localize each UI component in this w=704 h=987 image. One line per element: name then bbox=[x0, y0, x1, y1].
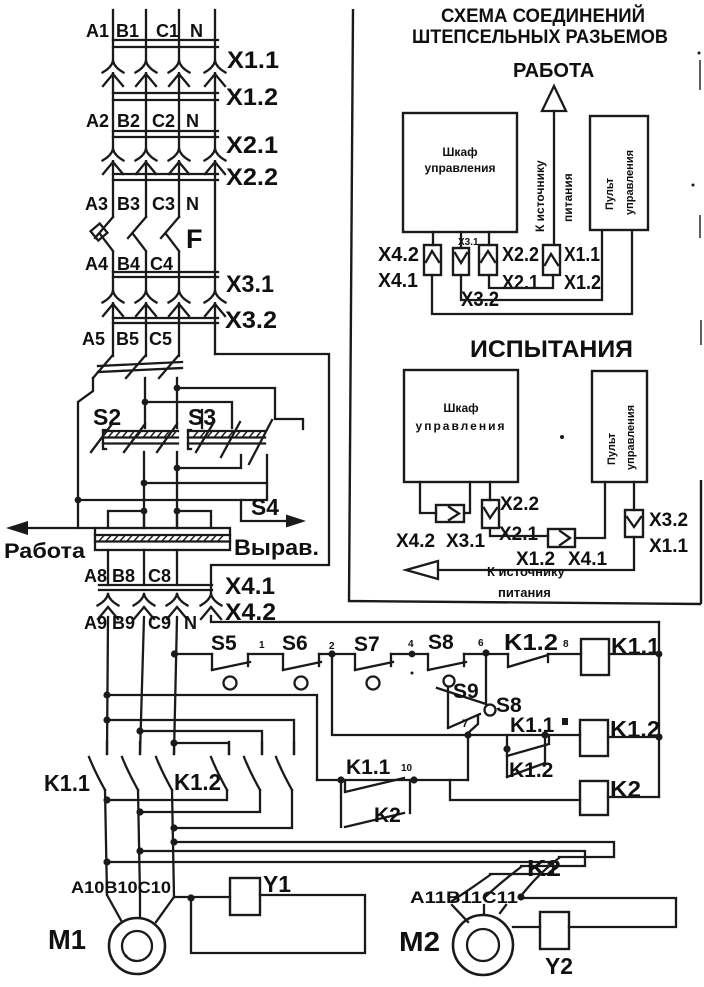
wire phase C column lower bbox=[174, 617, 177, 754]
wire X2.1 to X1.2 bbox=[490, 528, 548, 536]
svg-text:C1: C1 bbox=[156, 21, 179, 41]
svg-text:C9: C9 bbox=[148, 613, 171, 633]
svg-text:C5: C5 bbox=[149, 329, 172, 349]
svg-text:A3: A3 bbox=[85, 194, 108, 214]
svg-text:A9: A9 bbox=[84, 613, 107, 633]
svg-text:Шкаф: Шкаф bbox=[443, 401, 479, 415]
node junction rung1/rung2 feed bbox=[328, 650, 335, 657]
node junction C10 feed bbox=[170, 838, 177, 845]
pushbutton S6 bbox=[283, 654, 321, 670]
wire C to S3 right pole bbox=[177, 388, 303, 429]
wire M2 terminal A bbox=[452, 905, 468, 922]
wire cabinet stub to X2.2 bbox=[489, 482, 491, 500]
svg-text:X4.2: X4.2 bbox=[378, 244, 419, 266]
wire phase A column lower bbox=[107, 617, 108, 754]
svg-text:B1: B1 bbox=[116, 21, 139, 41]
cable marker above connector X2.1 bbox=[113, 131, 218, 137]
wire rung1 segment 3 bbox=[319, 653, 355, 655]
wire phase C through S2 bbox=[176, 378, 178, 428]
svg-text:8: 8 bbox=[563, 639, 569, 650]
circuit breaker F latch square bbox=[91, 224, 108, 241]
svg-text:M2: M2 bbox=[399, 926, 440, 957]
arrow to power source (left) bbox=[406, 561, 438, 579]
switch S2 bar lines bbox=[103, 431, 178, 444]
node junction rail rung1 bbox=[656, 651, 663, 658]
svg-text:РАБОТА: РАБОТА bbox=[513, 60, 594, 82]
relay coil K1.2 bbox=[580, 720, 608, 756]
wire A rail to S4 arrow bbox=[78, 500, 286, 521]
scan specks bbox=[698, 52, 701, 55]
pushbutton S8 bbox=[428, 654, 466, 670]
svg-text:управления: управления bbox=[416, 419, 507, 433]
svg-text:A1: A1 bbox=[86, 21, 109, 41]
relay coil K2 bbox=[580, 781, 608, 815]
wire C column below S2 bbox=[176, 452, 178, 528]
svg-text:X2.2: X2.2 bbox=[502, 244, 539, 266]
node junction B feed K1.2 bbox=[136, 727, 143, 734]
wire rung1 segment 1 bbox=[174, 653, 212, 655]
wire K1.2 pole C return bbox=[174, 790, 292, 828]
node junction Y1 loop bbox=[187, 894, 194, 901]
node junction B10 bbox=[136, 808, 143, 815]
wire A column to motor bbox=[105, 790, 122, 922]
frame of connection diagrams bbox=[349, 9, 701, 604]
svg-text:K2: K2 bbox=[527, 855, 561, 881]
wire C crossover feed bbox=[174, 743, 229, 754]
switch S3 bracket bbox=[188, 430, 191, 449]
svg-text:K2: K2 bbox=[374, 804, 401, 827]
wire cabinet stub 3 bbox=[488, 232, 490, 245]
svg-text:F: F bbox=[186, 224, 203, 254]
svg-text:N: N bbox=[186, 111, 199, 131]
parallel contact K2 branch bbox=[341, 780, 410, 827]
switch S3 blades bbox=[196, 420, 272, 464]
frame right edge dashes bbox=[700, 60, 701, 345]
connector pair X3.2/X1.1 bbox=[625, 510, 643, 537]
svg-text:S5: S5 bbox=[211, 632, 237, 655]
node junction rung3 left bbox=[337, 776, 344, 783]
svg-text:S9: S9 bbox=[453, 680, 479, 703]
node junction 7 bbox=[464, 731, 471, 738]
svg-text:Пульт: Пульт bbox=[606, 432, 618, 465]
svg-text:СХЕМА СОЕДИНЕНИЙ: СХЕМА СОЕДИНЕНИЙ bbox=[441, 5, 645, 27]
connector pair X2.2/X2.1 bbox=[482, 500, 499, 528]
svg-text:N: N bbox=[186, 194, 199, 214]
contact K1.1 NO in rung2 bbox=[507, 735, 549, 756]
svg-text:S7: S7 bbox=[354, 633, 380, 656]
wire C10 to K2 contacts bbox=[174, 842, 614, 857]
connector X3.1 contacts (4 poles) bbox=[103, 291, 226, 316]
switch S4 staple links bbox=[108, 511, 211, 528]
wire phase C column top section bbox=[178, 10, 180, 217]
wire N to relay rail bbox=[211, 616, 659, 622]
wire rung1 to coil K1.1 bbox=[548, 653, 581, 655]
wire cabinet stub 1 bbox=[432, 232, 434, 245]
wire rung3 feed from A bbox=[107, 695, 317, 780]
svg-text:X1.2: X1.2 bbox=[564, 272, 601, 294]
box console (Pult upravleniya) RABOTA bbox=[590, 116, 648, 230]
switch S4 right arrow (Vyrav. direction) bbox=[286, 515, 306, 528]
mechanical link bar of 3-pole switch bbox=[98, 362, 182, 372]
svg-text:S2: S2 bbox=[93, 404, 121, 430]
svg-text:X4.2: X4.2 bbox=[396, 531, 435, 552]
svg-text:N: N bbox=[184, 613, 197, 633]
cable marker above connector X4.1 bbox=[99, 585, 212, 590]
svg-text:ИСПЫТАНИЯ: ИСПЫТАНИЯ bbox=[470, 336, 633, 363]
wire M2 to Y2 bbox=[513, 926, 540, 928]
svg-text:S8: S8 bbox=[428, 631, 454, 654]
switch S4 bar hatching bbox=[99, 536, 223, 542]
wire B column below S2 bbox=[143, 452, 145, 528]
wire B crossover feed bbox=[140, 731, 262, 754]
svg-text:X3.1: X3.1 bbox=[458, 237, 479, 248]
wire X3.1 stub up bbox=[464, 482, 470, 513]
node junction C feed K1.2 bbox=[170, 739, 177, 746]
svg-text:S4: S4 bbox=[251, 494, 279, 520]
wire phase B column top section bbox=[145, 10, 147, 217]
svg-text:K1.2: K1.2 bbox=[509, 759, 553, 782]
svg-text:A5: A5 bbox=[82, 329, 105, 349]
svg-text:A4: A4 bbox=[85, 254, 108, 274]
wire number 9 mark bbox=[562, 718, 568, 725]
svg-text:1: 1 bbox=[259, 640, 265, 651]
wire N detour around S2-S4 bbox=[211, 354, 329, 592]
wire rung2-rung3 link bbox=[467, 737, 469, 780]
wire relay right rail bbox=[658, 622, 660, 797]
wire B to S3 middle pole bbox=[145, 402, 232, 428]
wire X1 bottom to X3 link bbox=[489, 275, 553, 288]
node junction C11 bbox=[517, 893, 524, 900]
node junction B10 feed bbox=[136, 847, 143, 854]
cable marker below connector X3.2 bbox=[113, 318, 218, 323]
wire console to X4 link bbox=[432, 232, 632, 314]
svg-text:управления: управления bbox=[624, 150, 636, 215]
switch S2 bar hatching bbox=[108, 432, 176, 438]
node junction rung2 branch right bbox=[541, 731, 548, 738]
contactor K1.1 pole C bbox=[156, 742, 174, 790]
node junction C-S3 output bbox=[174, 465, 181, 472]
svg-text:X1.2: X1.2 bbox=[226, 84, 278, 111]
switch S2 bracket bbox=[103, 430, 106, 449]
pushbutton S8 second contact bbox=[448, 688, 480, 728]
wire cabinet stub to X4.2 bbox=[420, 482, 436, 513]
svg-text:M1: M1 bbox=[48, 924, 86, 955]
wire console stub to X3.2 bbox=[633, 482, 635, 510]
node junction A10 feed bbox=[103, 858, 110, 865]
svg-text:X1.1: X1.1 bbox=[564, 244, 600, 266]
node junction rung3 right bbox=[410, 776, 417, 783]
wire K1.2 pole B return bbox=[140, 790, 260, 812]
connector pair X4.2/X4.1 bbox=[424, 245, 441, 275]
wire neutral N column top section bbox=[214, 10, 216, 354]
circuit breaker F pole A blade bbox=[95, 217, 113, 251]
contactor K2 pole 1 bbox=[521, 858, 559, 896]
arrow to power source (up) bbox=[542, 86, 566, 111]
svg-text:X3.2: X3.2 bbox=[225, 307, 277, 334]
wire S3 aux drop bbox=[241, 483, 267, 500]
svg-text:X4.1: X4.1 bbox=[378, 270, 418, 292]
wire rung1 segment 5 bbox=[464, 653, 508, 655]
svg-text:питания: питания bbox=[498, 585, 551, 600]
switch S3 bar lines bbox=[188, 431, 265, 444]
wire K1.2 pole A return bbox=[107, 790, 227, 800]
svg-text:7: 7 bbox=[462, 718, 468, 730]
solenoid Y2 bbox=[540, 912, 569, 949]
3-pole switch blade pole B bbox=[126, 356, 145, 378]
cable marker above connector X3.1 bbox=[113, 272, 218, 277]
svg-text:6: 6 bbox=[478, 638, 484, 649]
svg-text:управления: управления bbox=[625, 405, 637, 470]
wire phase B column mid section bbox=[145, 252, 147, 356]
contactor K1.2 pole B bbox=[244, 742, 262, 790]
circuit breaker F pole B blade bbox=[128, 217, 146, 251]
wire phase A column top section bbox=[112, 10, 114, 217]
cable marker below connector X1.2 bbox=[113, 93, 218, 100]
svg-text:A2: A2 bbox=[86, 111, 109, 131]
svg-text:B9: B9 bbox=[112, 613, 135, 633]
connector pair X2.2/X2.1 bbox=[479, 245, 497, 275]
motor M2 bbox=[453, 915, 513, 975]
connector X1.1 contacts (4 poles) bbox=[103, 61, 226, 86]
svg-text:Y2: Y2 bbox=[545, 953, 573, 979]
svg-text:Шкаф: Шкаф bbox=[442, 145, 478, 159]
svg-text:X3.2: X3.2 bbox=[649, 510, 688, 531]
wire coil K2 to rail bbox=[608, 796, 659, 798]
node junction A rail to S4 bbox=[75, 497, 82, 504]
wire S3 output to C node bbox=[177, 455, 241, 468]
svg-text:Y1: Y1 bbox=[263, 871, 291, 897]
cable marker above connector X1.1 bbox=[113, 40, 218, 47]
contactor K1.2 pole A bbox=[211, 742, 229, 790]
node junction staple C bbox=[174, 508, 181, 515]
wire rung1 segment 2 bbox=[248, 653, 283, 655]
svg-text:A8: A8 bbox=[84, 566, 107, 586]
wire legs S4 to X4 bbox=[108, 550, 177, 585]
svg-text:X2.1: X2.1 bbox=[226, 132, 278, 159]
wire S8 chain down to rung2 bbox=[468, 715, 478, 735]
wire phase A jog to left rail bbox=[78, 378, 93, 528]
svg-text:X3.1: X3.1 bbox=[446, 531, 486, 552]
svg-text:B3: B3 bbox=[117, 194, 140, 214]
node junction C to S3 feed bbox=[174, 385, 181, 392]
node junction B to S3 feed bbox=[142, 399, 149, 406]
wire phase C column mid section bbox=[178, 252, 180, 356]
pushbutton S5 bbox=[212, 654, 250, 670]
node junction rung2 branch left bbox=[503, 745, 510, 752]
svg-text:10: 10 bbox=[401, 763, 413, 774]
connector X4 contacts (4 poles) bbox=[98, 594, 222, 619]
motor M1 bbox=[109, 918, 165, 974]
svg-text:X3.1: X3.1 bbox=[226, 271, 274, 298]
box console (Pult upravleniya) ISPYT bbox=[592, 371, 647, 482]
svg-text:K1.2: K1.2 bbox=[504, 629, 558, 655]
wire A10 to K2 contacts bbox=[107, 862, 553, 874]
connector pair X4.2/X3.1 bbox=[436, 505, 464, 522]
svg-text:C8: C8 bbox=[148, 566, 171, 586]
wire coil K1.2 to rail bbox=[608, 736, 659, 738]
wire power feed to X1 bbox=[553, 111, 555, 245]
svg-text:X4.1: X4.1 bbox=[225, 573, 275, 600]
wire phase B column lower bbox=[140, 617, 144, 754]
relay coil K1.1 bbox=[581, 639, 609, 675]
svg-text:A11B11C11: A11B11C11 bbox=[410, 888, 518, 907]
svg-text:C2: C2 bbox=[152, 111, 175, 131]
node junction A10 bbox=[103, 796, 110, 803]
wire C11 to Y2 loop bbox=[521, 898, 676, 927]
contactor K1.1 pole B bbox=[122, 742, 140, 790]
svg-text:B5: B5 bbox=[116, 329, 139, 349]
svg-text:К источнику: К источнику bbox=[487, 564, 565, 579]
wire B10 to K2 contacts bbox=[140, 851, 585, 866]
svg-text:X1.1: X1.1 bbox=[227, 47, 279, 74]
svg-text:A10B10C10: A10B10C10 bbox=[71, 878, 171, 897]
svg-text:S6: S6 bbox=[282, 632, 308, 655]
svg-text:Вырав.: Вырав. bbox=[234, 535, 319, 560]
svg-text:X2.2: X2.2 bbox=[226, 164, 278, 191]
node junction rung1 tap on C bbox=[171, 650, 178, 657]
node junction staple B bbox=[141, 508, 148, 515]
wire console to X2 link bbox=[461, 232, 602, 300]
node junction C10 bbox=[170, 824, 177, 831]
wire C column to motor bbox=[156, 790, 174, 922]
svg-text:X2.1: X2.1 bbox=[502, 272, 539, 294]
svg-text:2: 2 bbox=[329, 641, 335, 652]
3-pole switch blades above S2 (pole A) bbox=[93, 356, 112, 378]
wire X4.1 to console bbox=[575, 482, 605, 538]
node junction 4 bbox=[409, 651, 416, 658]
contactor K2 pole 3 bbox=[452, 875, 490, 901]
svg-text:X1.1: X1.1 bbox=[649, 536, 689, 557]
svg-text:K1.2: K1.2 bbox=[174, 769, 221, 795]
circuit breaker F pole C blade bbox=[161, 217, 179, 251]
svg-text:управления: управления bbox=[425, 161, 496, 175]
cable marker below connector X2.2 bbox=[113, 174, 218, 180]
wire B column to motor bbox=[138, 790, 140, 918]
wire rung1 segment 4 bbox=[391, 653, 428, 655]
switch S3 bar hatching bbox=[193, 432, 261, 438]
contactor K1.1 pole A bbox=[89, 742, 107, 790]
svg-text:X4.1: X4.1 bbox=[568, 549, 608, 570]
switch S4 left arrow (Rabota direction) bbox=[28, 527, 95, 529]
node junction rail rung2 bbox=[655, 733, 662, 740]
pushbutton S9 bbox=[437, 654, 486, 704]
wire phase B through S2 bbox=[144, 378, 146, 428]
wire M2 terminal B bbox=[483, 905, 485, 913]
svg-text:X2.1: X2.1 bbox=[499, 524, 539, 545]
connector X2.1 contacts (4 poles) bbox=[103, 149, 226, 174]
parallel contact K1.2 branch bbox=[507, 735, 545, 777]
node junction A feed K1.2 bbox=[103, 716, 110, 723]
wire coil K1.1 to rail bbox=[609, 653, 659, 655]
wire C10 to Y1 bbox=[174, 896, 230, 898]
wire phase A column mid section bbox=[112, 252, 114, 356]
svg-text:B8: B8 bbox=[112, 566, 135, 586]
3-pole switch blade pole C bbox=[159, 356, 178, 378]
connector pair X1.2/X4.1 bbox=[548, 529, 575, 547]
switch S4 bar bbox=[95, 528, 230, 550]
svg-text:B2: B2 bbox=[117, 111, 140, 131]
contact K1.2 NC in rung1 bbox=[508, 654, 548, 667]
node junction 6 (S9 drop) bbox=[482, 649, 489, 656]
contact K1.1 NO in rung3 bbox=[345, 778, 404, 792]
svg-text:Работа: Работа bbox=[4, 540, 85, 563]
svg-text:N: N bbox=[190, 21, 203, 41]
wire cabinet stub 2 bbox=[460, 232, 462, 248]
box cabinet (Shkaf upravleniya) RABOTA bbox=[403, 113, 517, 232]
wire S3 left pole stub bbox=[201, 410, 203, 428]
svg-text:K1.1: K1.1 bbox=[44, 770, 90, 796]
connector pair X1.1/X1.2 bbox=[543, 245, 560, 275]
svg-text:C3: C3 bbox=[152, 194, 175, 214]
wire rung3 bbox=[317, 779, 468, 781]
contactor K2 pole 2 bbox=[484, 867, 521, 898]
wire S3 output to B node bbox=[144, 455, 267, 483]
box cabinet (Shkaf upravleniya) ISPYT bbox=[404, 370, 518, 482]
wire rung3 to coil K2 bbox=[450, 780, 580, 800]
pushbutton S7 bbox=[355, 654, 393, 670]
svg-text:4: 4 bbox=[408, 639, 414, 650]
svg-text:К источнику: К источнику bbox=[533, 160, 547, 232]
solenoid Y1 bbox=[230, 878, 260, 915]
node junction B-S3 output bbox=[141, 480, 148, 487]
connector pair X3 middle bbox=[453, 248, 469, 275]
contactor K1.2 pole C bbox=[276, 742, 294, 790]
wire rung2 feed drop bbox=[332, 654, 580, 735]
svg-text:питания: питания bbox=[561, 173, 575, 222]
node junction rung3 tap on A bbox=[103, 691, 110, 698]
wire A crossover feed bbox=[107, 720, 294, 754]
wire Y1 return loop bbox=[191, 895, 365, 953]
svg-text:K1.1: K1.1 bbox=[346, 756, 391, 779]
svg-text:X2.2: X2.2 bbox=[500, 494, 539, 515]
switch S2 blades bbox=[91, 424, 177, 452]
svg-text:Пульт: Пульт bbox=[604, 177, 616, 210]
wire M2 terminal C bbox=[500, 905, 506, 913]
svg-text:ШТЕПСЕЛЬНЫХ РАЗЬЕМОВ: ШТЕПСЕЛЬНЫХ РАЗЬЕМОВ bbox=[412, 27, 668, 48]
wire X1.1 to source arrow bbox=[438, 537, 634, 570]
